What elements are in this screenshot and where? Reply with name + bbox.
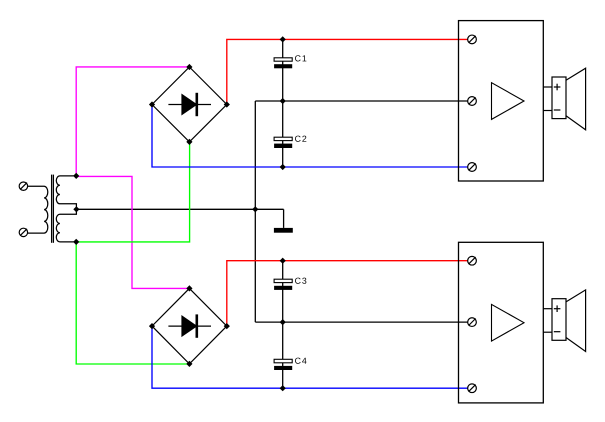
junction BR1 top node: [186, 64, 192, 70]
junction BR2 left node: [149, 323, 155, 329]
svg-text:C1: C1: [295, 53, 308, 63]
wire BR2 + output to amp2 V+ (red): [227, 261, 468, 326]
transformer T1 secondary windings with center tap: [56, 176, 76, 242]
amplifier U2 terminal V-: [468, 384, 477, 393]
junction V- rail C4: [280, 385, 286, 391]
junction BR2 right node: [224, 323, 230, 329]
ground: [274, 209, 293, 232]
amplifier U2 terminal 0V: [468, 318, 477, 327]
junction V+ rail C3: [280, 258, 286, 264]
wire ground bus vertical: [254, 101, 256, 322]
junction V- rail C2: [280, 164, 286, 170]
junction BR1 bottom node: [186, 139, 192, 145]
wire BR1 + output to amp1 V+ (red): [227, 39, 468, 104]
amplifier U1 box: [459, 21, 544, 181]
amplifier U1 terminal 0V: [468, 97, 477, 106]
junction BR1 right node: [224, 101, 230, 107]
amplifier U2 symbol: [492, 304, 525, 341]
wire secondary top to BR1 plus (magenta): [76, 67, 189, 176]
junction secondary top node: [73, 173, 79, 179]
wire BR1 minus to secondary bottom (green): [76, 142, 189, 242]
bridge rectifier BR2: [152, 288, 227, 364]
junction 0V rail C1 C2: [280, 98, 286, 104]
transformer T1 primary terminal bottom: [19, 228, 27, 236]
junction BR1 left node: [149, 101, 155, 107]
wire 0V lower rail to amp2 (black): [255, 321, 467, 323]
wire secondary bottom to BR2 minus (green): [76, 242, 189, 364]
speaker LS2: [543, 290, 585, 352]
wire 0V upper rail to amp1 (black): [255, 100, 467, 102]
amplifier U2 box: [459, 242, 544, 403]
speaker LS1: [543, 68, 585, 130]
capacitor C1: [274, 39, 308, 101]
junction BR2 top node: [186, 285, 192, 291]
bridge rectifier BR1: [152, 67, 227, 142]
junction V+ rail C1: [280, 36, 286, 42]
amplifier U2 terminal V+: [468, 256, 477, 265]
junction center tap bus: [252, 206, 258, 212]
junction 0V rail C3 C4: [280, 319, 286, 325]
wire secondary top to BR2 plus (magenta): [76, 176, 189, 288]
junction center tap node: [73, 206, 79, 212]
svg-text:C4: C4: [295, 356, 308, 366]
transformer T1 primary terminal top: [19, 182, 27, 190]
junction secondary bottom node: [73, 239, 79, 245]
svg-text:C2: C2: [295, 134, 308, 144]
capacitor C4: [274, 322, 308, 388]
wire center tap to ground bus: [76, 208, 283, 210]
capacitor C2: [274, 101, 308, 167]
capacitor C3: [274, 261, 308, 322]
wire BR2 - output to amp2 V- (blue): [152, 326, 468, 388]
amplifier U1 symbol: [492, 83, 525, 120]
transformer T1 core: [51, 175, 53, 243]
amplifier U1 terminal V-: [468, 163, 477, 172]
junction BR2 bottom node: [186, 361, 192, 367]
svg-text:C3: C3: [295, 276, 308, 286]
wire BR1 - output to amp1 V- (blue): [152, 105, 468, 168]
amplifier U1 terminal V+: [468, 35, 477, 44]
transformer T1 primary winding: [28, 186, 48, 233]
